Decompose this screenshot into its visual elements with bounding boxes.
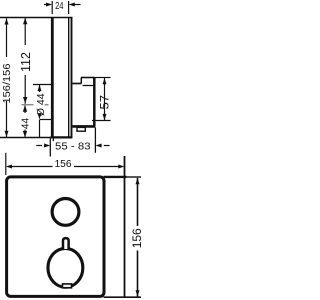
svg-text:44: 44 [20, 118, 31, 130]
svg-text:57: 57 [98, 95, 112, 110]
svg-text:112: 112 [19, 52, 33, 72]
svg-text:156/156: 156/156 [2, 63, 13, 103]
svg-text:156: 156 [55, 159, 72, 170]
svg-text:156: 156 [130, 228, 144, 248]
svg-text:Ø 44: Ø 44 [35, 93, 47, 116]
svg-text:55 - 83: 55 - 83 [55, 142, 91, 153]
svg-text:24: 24 [55, 1, 64, 12]
